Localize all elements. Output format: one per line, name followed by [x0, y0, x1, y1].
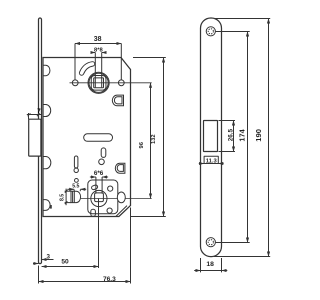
top screw hole inner [208, 29, 213, 34]
left screw hole [72, 80, 78, 86]
dim 26.6 line [233, 121, 235, 152]
dim 11.3 arrows [199, 163, 204, 165]
side oval [117, 192, 125, 203]
hub outer circle [88, 72, 109, 93]
dim 76.3 line [39, 281, 131, 283]
svg-text:18: 18 [206, 261, 214, 268]
dim 190 ext bot [214, 256, 270, 258]
dim 174 line [247, 32, 249, 243]
striker plate outline [201, 18, 222, 257]
dim 8*8 arrows [91, 52, 96, 54]
dim 96 line [150, 83, 152, 199]
WC centerline [81, 198, 152, 200]
D-pocket lower [115, 163, 125, 173]
svg-text:132: 132 [151, 134, 157, 144]
inner chamfer line [116, 206, 127, 217]
dim 18 arrows [194, 270, 200, 272]
svg-text:7: 7 [37, 108, 41, 115]
faceplate edge strip [39, 18, 42, 264]
dim 8.5 ticks [65, 190, 68, 193]
dim 7 ext line [28, 113, 30, 119]
hub square hole 8x8 [94, 78, 104, 88]
dim 132 line [163, 58, 165, 217]
small circle [99, 159, 105, 165]
dim 8.5 ext lines [65, 190, 71, 192]
dim 26.6 ext lines [219, 120, 236, 122]
case lug 3 [43, 157, 51, 169]
dim 8.5 line [65, 189, 67, 206]
plate hole top-right [108, 186, 113, 191]
dim 132 ext top [133, 57, 166, 59]
latch bolt (extended) [29, 119, 41, 156]
dim 174 ext top [216, 31, 250, 33]
svg-text:26.5: 26.5 [228, 128, 235, 141]
dim 5.5 ext lines [73, 190, 75, 192]
adjust slot [74, 156, 78, 168]
scan speck [50, 205, 52, 209]
case lug 1 [43, 65, 50, 76]
WC bolt [71, 191, 81, 202]
svg-text:5.5: 5.5 [72, 184, 79, 190]
dim 38 line [75, 43, 121, 45]
plate tab bottom-left [91, 209, 96, 216]
square plate [88, 180, 118, 214]
svg-text:11.3: 11.3 [206, 158, 218, 164]
dim 8*8 ext lines [94, 53, 96, 88]
small vertical slot [101, 148, 106, 158]
top screw hole [206, 27, 215, 36]
plate big circle [91, 190, 107, 206]
lock case body [43, 58, 131, 217]
dim 132 ext bot [131, 216, 166, 218]
dim 6*6 ext lines [95, 177, 97, 194]
dim 5.5 arrows [67, 188, 74, 190]
svg-text:96: 96 [139, 141, 145, 148]
dim 3 line a [42, 259, 54, 261]
latch window [204, 121, 218, 152]
kidney slot [82, 64, 93, 73]
svg-text:76.3: 76.3 [103, 276, 116, 283]
plate tab top-left [91, 184, 98, 190]
dim 18 line [201, 270, 222, 272]
dim 7 line [27, 114, 42, 116]
dim 76.3 ext right [130, 208, 132, 284]
dim 50 ext line [98, 199, 100, 269]
svg-text:8*8: 8*8 [94, 47, 103, 53]
dim 7 ticks [28, 113, 31, 116]
dim 38 ext lines [74, 44, 76, 80]
case lug 2 [43, 105, 51, 117]
dim 3 line b [33, 263, 39, 265]
bottom screw hole inner [208, 240, 213, 245]
svg-text:6*6: 6*6 [94, 170, 104, 177]
dim 11.3 box [204, 156, 218, 163]
hub centerline [70, 82, 152, 84]
hub rounded square [91, 75, 106, 90]
svg-text:190: 190 [254, 129, 263, 142]
plate square hole 6x6 [95, 193, 104, 202]
adjust circle [74, 168, 78, 172]
dim 174 ext bot [216, 242, 250, 244]
svg-text:50: 50 [61, 259, 69, 266]
svg-text:174: 174 [237, 128, 246, 141]
dim 6*6 arrows [90, 176, 96, 178]
dim 18 ext lines [200, 258, 202, 272]
svg-text:3: 3 [46, 253, 50, 260]
dim 76.3 ext left [38, 266, 40, 284]
dim 190 ext top [214, 18, 270, 20]
horizontal slot [84, 134, 113, 142]
dim 50 line [42, 266, 99, 268]
bottom screw hole [206, 238, 215, 247]
plate hole bottom-right [107, 208, 112, 213]
right screw hole [118, 80, 124, 86]
dim 190 line [268, 19, 270, 257]
svg-text:38: 38 [94, 36, 102, 43]
case lug 4 [43, 200, 50, 211]
D-pocket upper [112, 95, 123, 106]
tiny circle [75, 179, 79, 183]
hub inner circle [89, 73, 108, 92]
svg-text:8.5: 8.5 [59, 194, 65, 201]
